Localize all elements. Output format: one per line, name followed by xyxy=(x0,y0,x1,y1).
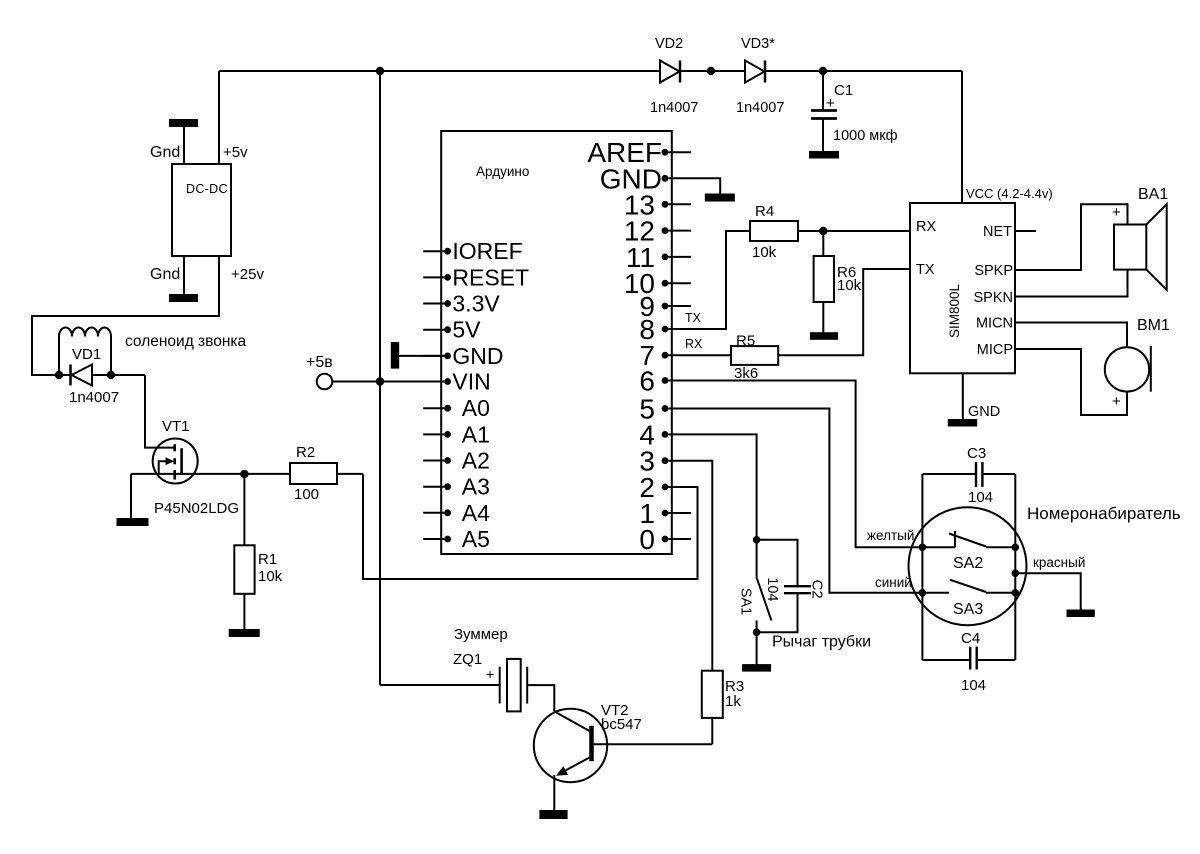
node SA1 top xyxy=(753,536,761,544)
svg-text:0: 0 xyxy=(639,524,655,555)
IC SIM800L body xyxy=(910,203,1015,373)
svg-text:6: 6 xyxy=(639,366,655,397)
svg-text:SA2: SA2 xyxy=(953,555,983,572)
svg-text:VD3*: VD3* xyxy=(741,36,775,52)
svg-text:104: 104 xyxy=(961,677,986,694)
svg-text:+5в: +5в xyxy=(306,354,333,371)
pin A3 (left) xyxy=(423,474,490,500)
ground at Arduino left GND pin xyxy=(392,343,444,368)
svg-text:VD1: VD1 xyxy=(72,346,101,363)
svg-text:RX: RX xyxy=(916,219,936,235)
svg-text:A0: A0 xyxy=(462,395,490,421)
node SA2 right xyxy=(1012,544,1020,552)
wire xyxy=(765,70,962,72)
svg-text:3k6: 3k6 xyxy=(734,365,758,382)
resistor R5 3k6 xyxy=(731,333,778,383)
svg-text:VT1: VT1 xyxy=(162,418,190,435)
switch SA2 xyxy=(922,531,1015,572)
pin 5V (left) xyxy=(423,317,481,343)
svg-text:BA1: BA1 xyxy=(1138,186,1168,203)
wire pin4 to SA1 xyxy=(668,434,756,537)
wire MICN to mic xyxy=(1015,323,1127,348)
node SA1 bottom xyxy=(753,629,761,637)
svg-text:1n4007: 1n4007 xyxy=(736,100,784,116)
diode VD2 xyxy=(650,36,698,116)
svg-text:красный: красный xyxy=(1033,555,1085,570)
pin 12 (right) xyxy=(624,216,691,247)
svg-text:ZQ1: ZQ1 xyxy=(453,651,482,668)
dial circle xyxy=(909,507,1027,625)
pin 6 (right) xyxy=(639,366,668,397)
svg-text:SIM800L: SIM800L xyxy=(947,283,962,338)
svg-text:соленоид звонка: соленоид звонка xyxy=(125,333,247,350)
node junction top rail / main vertical xyxy=(376,67,384,75)
wire pin3 to R3 xyxy=(668,461,712,671)
svg-text:IOREF: IOREF xyxy=(452,238,522,264)
capacitor C2 104 xyxy=(757,540,826,633)
wire pin5 to SA3 xyxy=(668,409,920,593)
svg-text:+: + xyxy=(1112,204,1121,221)
node R4/R6 junction xyxy=(819,227,827,235)
svg-text:3.3V: 3.3V xyxy=(452,291,500,317)
svg-text:желтый: желтый xyxy=(867,528,914,543)
ground VT2 emitter xyxy=(540,775,566,818)
svg-text:VD2: VD2 xyxy=(655,36,683,52)
svg-text:Номеронабиратель: Номеронабиратель xyxy=(1027,504,1181,523)
dial rectangle (Номеронабиратель) xyxy=(922,474,1180,660)
node SA3 right xyxy=(1012,589,1020,597)
node красный xyxy=(1012,569,1020,577)
wire красный to ground xyxy=(1015,573,1080,610)
svg-text:NET: NET xyxy=(983,224,1012,240)
switch SA1 (handset lever) xyxy=(738,540,772,633)
svg-text:VIN: VIN xyxy=(452,369,490,395)
wire R5 to TX xyxy=(778,269,910,355)
wire pin7 to R5 xyxy=(668,354,731,356)
wire +5v riser xyxy=(218,71,220,164)
wire pin6 to SA2 xyxy=(668,381,920,548)
inductor L1 solenoid coil xyxy=(59,328,111,376)
svg-text:R5: R5 xyxy=(736,333,755,350)
switch SA3 xyxy=(922,580,1015,618)
svg-text:SA3: SA3 xyxy=(953,601,983,618)
transistor VT1 P45N02LDG xyxy=(153,418,239,517)
svg-text:+: + xyxy=(486,666,494,682)
capacitor C3 104 xyxy=(967,445,993,506)
svg-text:Gnd: Gnd xyxy=(150,266,180,283)
resistor R1 10k xyxy=(234,474,282,630)
pin IOREF (left) xyxy=(423,238,522,264)
svg-text:1000 мкф: 1000 мкф xyxy=(833,128,898,144)
svg-text:1n4007: 1n4007 xyxy=(650,100,698,116)
svg-text:10k: 10k xyxy=(258,568,283,585)
pin NET stub xyxy=(983,224,1036,240)
svg-text:GND: GND xyxy=(452,343,503,369)
wire buzzer feed xyxy=(380,684,500,686)
svg-text:5V: 5V xyxy=(452,317,481,343)
wire SPKP to speaker xyxy=(1015,204,1128,270)
capacitor C4 104 xyxy=(961,630,986,694)
svg-text:C3: C3 xyxy=(967,445,986,462)
wire source rail xyxy=(131,473,290,475)
svg-text:RX: RX xyxy=(685,337,703,351)
node junction VD2-VD3 xyxy=(707,67,715,75)
svg-text:bc547: bc547 xyxy=(601,716,642,733)
svg-text:104: 104 xyxy=(968,489,993,506)
transistor VT2 bc547 xyxy=(534,702,713,782)
pin 2 (right) xyxy=(639,472,668,503)
pin GND (left) xyxy=(423,343,503,369)
resistor R2 100 xyxy=(290,444,337,503)
ground VT1 xyxy=(118,474,148,525)
svg-text:RESET: RESET xyxy=(452,264,529,290)
ground R6 xyxy=(811,333,837,339)
node SA3 left (синий) xyxy=(919,589,927,597)
resistor R4 10k xyxy=(750,203,798,261)
node VD1 left xyxy=(55,371,63,379)
pin AREF (right) xyxy=(587,137,691,168)
svg-text:синий: синий xyxy=(875,575,912,590)
pin A4 (left) xyxy=(423,500,490,526)
svg-text:C4: C4 xyxy=(961,630,980,647)
ground красный xyxy=(1068,611,1094,617)
pin 7 (right) xyxy=(639,340,668,371)
svg-text:SPKN: SPKN xyxy=(974,290,1014,306)
pin 1 (right) xyxy=(639,498,691,529)
pin A5 (left) xyxy=(423,526,490,552)
pin 10 (right) xyxy=(624,268,691,299)
svg-text:1k: 1k xyxy=(725,693,741,710)
node VD1 right xyxy=(107,371,115,379)
pin 8 (right) xyxy=(639,314,668,345)
svg-text:R1: R1 xyxy=(258,551,277,568)
wire R4 to RX xyxy=(798,230,910,232)
ground R1 xyxy=(230,630,259,636)
svg-text:R2: R2 xyxy=(296,444,315,461)
svg-text:A2: A2 xyxy=(462,448,490,474)
node junction C1 top xyxy=(819,67,827,75)
svg-text:Рычаг трубки: Рычаг трубки xyxy=(772,634,871,651)
resistor R3 1k xyxy=(702,671,744,745)
svg-text:SPKP: SPKP xyxy=(974,263,1013,279)
ground SIM800L GND xyxy=(949,373,1000,425)
svg-text:GND: GND xyxy=(968,404,1000,420)
pin A0 (left) xyxy=(423,395,490,421)
pin VIN (left) xyxy=(423,369,491,395)
pin 9 (right) xyxy=(639,291,691,322)
node SA2 left (желтый) xyxy=(919,544,927,552)
DC-DC converter U-DC xyxy=(172,164,231,256)
svg-text:DC-DC: DC-DC xyxy=(186,182,228,196)
svg-text:C2: C2 xyxy=(809,580,826,599)
svg-text:TX: TX xyxy=(685,311,702,325)
ground below DC-DC xyxy=(170,256,197,301)
svg-text:A3: A3 xyxy=(462,474,490,500)
svg-text:104: 104 xyxy=(764,577,780,601)
svg-text:+5v: +5v xyxy=(223,144,248,161)
wire xyxy=(680,70,745,72)
pin RESET (left) xyxy=(423,264,529,290)
wire SPKN to speaker xyxy=(1015,270,1128,297)
wire net D2-R2 xyxy=(363,474,698,579)
ground C1 xyxy=(810,152,838,158)
wire pin8 to R4 xyxy=(668,231,750,329)
pin 5 (right) xyxy=(639,394,668,425)
pin GND (right) xyxy=(600,163,669,194)
capacitor C1 1000mkf xyxy=(811,71,898,152)
svg-text:MICP: MICP xyxy=(977,342,1013,358)
diode VD3* xyxy=(736,36,784,116)
resistor R6 10k xyxy=(814,231,862,333)
microphone BM1 xyxy=(1105,317,1170,392)
pin 0 (right) xyxy=(639,524,691,555)
svg-text:A4: A4 xyxy=(462,500,490,526)
node R1 top xyxy=(240,470,248,478)
svg-text:A1: A1 xyxy=(462,421,490,447)
svg-text:+: + xyxy=(1112,393,1121,410)
ground top-left xyxy=(170,120,197,164)
wire R2 to riser xyxy=(337,473,363,475)
wire top rail xyxy=(219,70,660,72)
svg-text:P45N02LDG: P45N02LDG xyxy=(154,500,239,517)
terminal +5в xyxy=(306,354,444,389)
pin 3.3V (left) xyxy=(423,291,500,317)
svg-text:A5: A5 xyxy=(462,526,490,552)
diode VD1 xyxy=(59,346,145,406)
IC Arduino (Ардуино) body xyxy=(441,131,672,554)
pin 4 (right) xyxy=(639,419,668,450)
svg-text:R4: R4 xyxy=(755,203,774,220)
svg-text:10k: 10k xyxy=(752,244,777,261)
pin A1 (left) xyxy=(423,421,490,447)
pin 3 (right) xyxy=(639,446,668,477)
pin 11 (right) xyxy=(626,242,691,273)
svg-text:Зуммер: Зуммер xyxy=(454,626,508,643)
svg-text:10k: 10k xyxy=(837,277,862,294)
svg-text:Gnd: Gnd xyxy=(150,144,180,161)
ground at Arduino right GND pin xyxy=(668,178,733,200)
svg-text:SA1: SA1 xyxy=(738,588,754,615)
wire buzzer to VT2 base xyxy=(527,685,554,711)
wire gate drop xyxy=(145,375,174,448)
pin A2 (left) xyxy=(423,448,490,474)
ground SA1 xyxy=(743,632,770,670)
svg-text:1n4007: 1n4007 xyxy=(69,389,119,406)
svg-text:TX: TX xyxy=(916,262,935,278)
svg-text:Ардуино: Ардуино xyxy=(476,164,529,179)
svg-text:VCC (4.2-4.4v): VCC (4.2-4.4v) xyxy=(966,186,1053,201)
svg-text:100: 100 xyxy=(294,486,319,503)
buzzer ZQ1 (Зуммер) xyxy=(453,626,527,711)
svg-text:C1: C1 xyxy=(834,82,853,99)
wire MICP to mic xyxy=(1015,349,1127,415)
svg-text:+25v: +25v xyxy=(231,266,264,283)
speaker BA1 xyxy=(1114,186,1168,290)
wire +25v path xyxy=(32,256,219,375)
svg-text:BM1: BM1 xyxy=(1137,317,1170,334)
svg-text:MICN: MICN xyxy=(976,316,1013,332)
pin 13 (right) xyxy=(624,189,691,220)
wire VCC drop xyxy=(961,71,963,203)
wire main vertical xyxy=(379,71,381,685)
node VIN junction xyxy=(376,377,384,385)
